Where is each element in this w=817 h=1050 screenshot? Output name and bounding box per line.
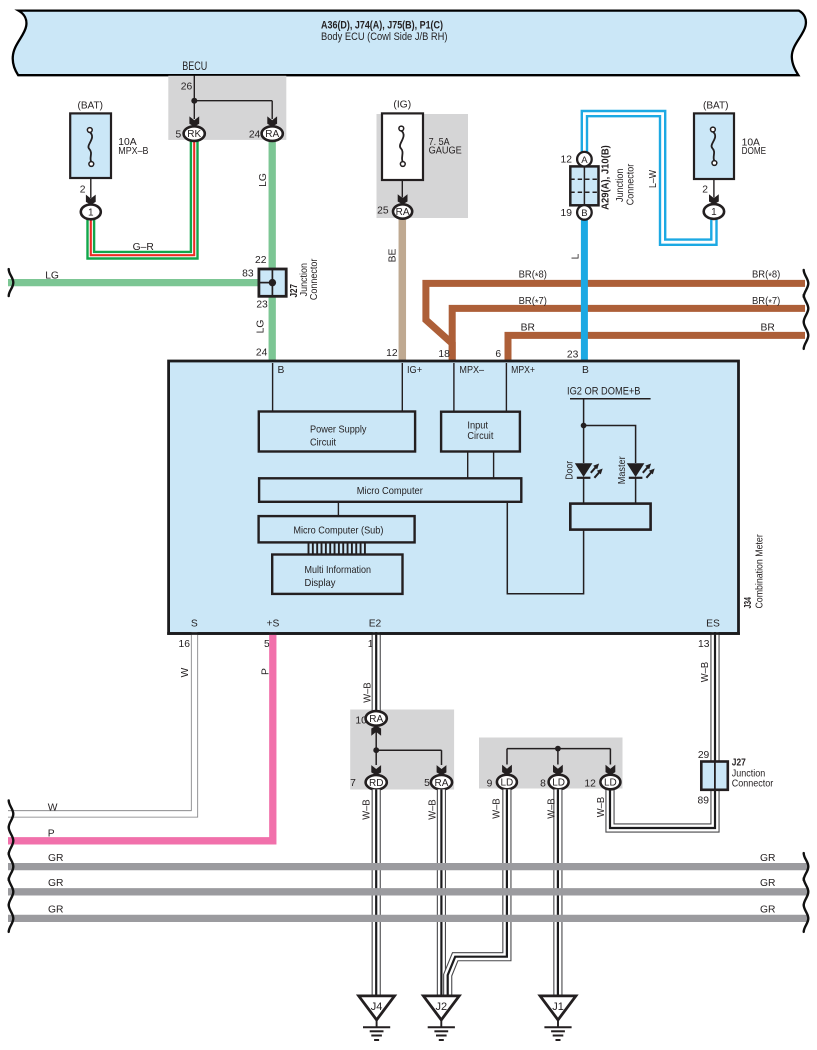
svg-text:MPX+: MPX+ bbox=[511, 365, 535, 376]
svg-text:W–B: W–B bbox=[546, 798, 557, 819]
svg-text:A: A bbox=[581, 155, 588, 166]
svg-text:Circuit: Circuit bbox=[310, 437, 336, 448]
svg-text:Circuit: Circuit bbox=[467, 431, 493, 442]
svg-text:2: 2 bbox=[702, 184, 708, 195]
svg-text:W: W bbox=[180, 667, 191, 677]
svg-text:J4: J4 bbox=[371, 1001, 383, 1013]
svg-text:BR: BR bbox=[761, 323, 775, 334]
svg-text:LG: LG bbox=[258, 173, 269, 187]
svg-text:GR: GR bbox=[48, 905, 63, 916]
svg-text:L: L bbox=[570, 253, 581, 259]
svg-text:Micro Computer: Micro Computer bbox=[357, 486, 424, 497]
svg-text:LD: LD bbox=[604, 778, 617, 789]
svg-text:LD: LD bbox=[552, 778, 565, 789]
svg-text:E2: E2 bbox=[369, 619, 382, 630]
svg-text:22: 22 bbox=[255, 255, 267, 266]
svg-text:18: 18 bbox=[438, 349, 450, 360]
svg-text:GR: GR bbox=[760, 853, 775, 864]
svg-text:Combination Meter: Combination Meter bbox=[755, 534, 766, 609]
svg-text:24: 24 bbox=[249, 130, 261, 141]
svg-text:L–W: L–W bbox=[648, 170, 659, 188]
svg-text:6: 6 bbox=[495, 349, 501, 360]
svg-text:LG: LG bbox=[45, 271, 59, 282]
svg-text:J1: J1 bbox=[552, 1001, 564, 1013]
svg-text:DOME: DOME bbox=[742, 146, 767, 157]
svg-text:GR: GR bbox=[48, 853, 63, 864]
svg-text:W–B: W–B bbox=[596, 797, 607, 818]
svg-text:26: 26 bbox=[181, 81, 193, 92]
svg-text:1: 1 bbox=[88, 208, 94, 219]
svg-text:W–B: W–B bbox=[700, 662, 711, 683]
svg-text:B: B bbox=[582, 365, 589, 376]
svg-text:Multi Information: Multi Information bbox=[305, 565, 372, 576]
svg-text:GAUGE: GAUGE bbox=[429, 145, 462, 156]
svg-text:W–B: W–B bbox=[427, 799, 438, 820]
svg-text:LD: LD bbox=[501, 778, 514, 789]
svg-text:12: 12 bbox=[584, 779, 596, 790]
svg-text:W: W bbox=[48, 803, 58, 814]
svg-text:23: 23 bbox=[256, 300, 268, 311]
svg-text:12: 12 bbox=[386, 348, 398, 359]
svg-text:J34: J34 bbox=[743, 597, 754, 609]
svg-text:GR: GR bbox=[760, 878, 775, 889]
svg-text:89: 89 bbox=[698, 796, 710, 807]
svg-text:S: S bbox=[191, 619, 198, 630]
svg-text:MPX–B: MPX–B bbox=[118, 146, 148, 157]
svg-text:RA: RA bbox=[265, 129, 279, 140]
svg-text:MPX–: MPX– bbox=[459, 365, 484, 376]
svg-text:LG: LG bbox=[255, 320, 266, 334]
svg-text:A36(D), J74(A), J75(B), P1(C): A36(D), J74(A), J75(B), P1(C) bbox=[321, 20, 443, 32]
svg-text:29: 29 bbox=[698, 750, 710, 761]
svg-text:RA: RA bbox=[435, 778, 449, 789]
svg-text:(BAT): (BAT) bbox=[78, 101, 104, 112]
svg-text:5: 5 bbox=[175, 130, 181, 141]
svg-text:24: 24 bbox=[256, 348, 268, 359]
svg-text:W–B: W–B bbox=[361, 799, 372, 820]
svg-text:Connector: Connector bbox=[732, 779, 774, 790]
svg-text:5: 5 bbox=[424, 778, 430, 789]
svg-text:RA: RA bbox=[396, 207, 410, 218]
svg-text:Display: Display bbox=[305, 578, 337, 589]
svg-text:Master: Master bbox=[617, 456, 628, 484]
svg-text:J2: J2 bbox=[435, 1001, 447, 1013]
svg-text:12: 12 bbox=[561, 155, 573, 166]
svg-text:(IG): (IG) bbox=[393, 100, 411, 111]
svg-text:+S: +S bbox=[266, 619, 279, 630]
svg-text:P: P bbox=[48, 829, 55, 840]
svg-text:IG+: IG+ bbox=[407, 365, 422, 376]
svg-text:Power Supply: Power Supply bbox=[310, 425, 367, 436]
svg-text:BECU: BECU bbox=[182, 61, 207, 73]
svg-text:Connector: Connector bbox=[309, 258, 320, 300]
svg-text:ES: ES bbox=[706, 619, 720, 630]
svg-text:RK: RK bbox=[187, 129, 201, 140]
svg-text:Connector: Connector bbox=[626, 163, 637, 205]
svg-text:Micro Computer (Sub): Micro Computer (Sub) bbox=[293, 525, 383, 536]
svg-text:B: B bbox=[278, 365, 285, 376]
svg-text:19: 19 bbox=[561, 208, 573, 219]
svg-text:13: 13 bbox=[698, 639, 710, 650]
svg-text:GR: GR bbox=[760, 905, 775, 916]
svg-text:25: 25 bbox=[377, 205, 389, 216]
svg-text:23: 23 bbox=[567, 350, 579, 361]
svg-text:BR: BR bbox=[521, 323, 535, 334]
svg-text:G–R: G–R bbox=[133, 242, 154, 253]
svg-text:RD: RD bbox=[369, 778, 383, 789]
svg-text:A29(A), J10(B): A29(A), J10(B) bbox=[600, 145, 611, 210]
svg-text:(BAT): (BAT) bbox=[703, 101, 729, 112]
svg-text:GR: GR bbox=[48, 878, 63, 889]
svg-text:P: P bbox=[261, 668, 272, 675]
svg-text:W–B: W–B bbox=[363, 682, 374, 703]
svg-text:Body ECU (Cowl Side J/B RH): Body ECU (Cowl Side J/B RH) bbox=[321, 31, 448, 43]
svg-text:Door: Door bbox=[565, 460, 576, 479]
svg-text:W–B: W–B bbox=[491, 798, 502, 819]
svg-text:8: 8 bbox=[540, 779, 546, 790]
svg-text:IG2 OR DOME+B: IG2 OR DOME+B bbox=[567, 385, 641, 397]
svg-text:5: 5 bbox=[264, 639, 270, 650]
svg-text:1: 1 bbox=[711, 207, 717, 218]
svg-text:9: 9 bbox=[487, 779, 493, 790]
svg-text:Junction: Junction bbox=[615, 168, 626, 202]
svg-text:2: 2 bbox=[80, 184, 86, 195]
svg-text:BE: BE bbox=[388, 249, 399, 263]
svg-text:83: 83 bbox=[242, 268, 254, 279]
svg-text:J27: J27 bbox=[732, 758, 746, 769]
svg-text:RA: RA bbox=[369, 714, 383, 725]
svg-text:B: B bbox=[581, 208, 587, 219]
svg-text:7: 7 bbox=[350, 778, 356, 789]
svg-text:16: 16 bbox=[179, 639, 191, 650]
